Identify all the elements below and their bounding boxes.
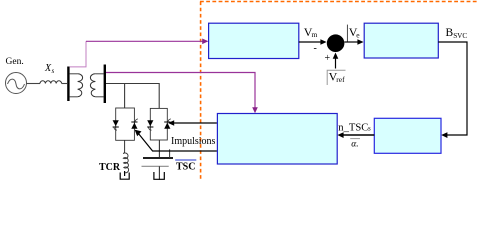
svg-text:ref: ref: [336, 75, 345, 84]
wire U3 to U4 n_TSCs: [341, 134, 374, 136]
bus B1 (primary busbar): [67, 67, 69, 102]
svg-text:-: -: [314, 43, 317, 54]
svg-text:s: s: [52, 67, 55, 75]
TSC capacitor C1: [158, 140, 160, 157]
arrowhead Vref into summer: [333, 53, 339, 59]
arrowhead into U2: [357, 39, 363, 45]
wire summer to U2: [344, 41, 360, 43]
svg-text:n_TSC: n_TSC: [338, 122, 368, 133]
summing junction S1: [327, 34, 345, 52]
alpha label underline: [350, 138, 360, 140]
svg-text:SVC: SVC: [453, 32, 467, 40]
generator G symbol: [6, 73, 27, 94]
transformer T1 secondary lead top: [95, 73, 103, 75]
wire bus B1 to measurement tap (light purple jog): [70, 41, 86, 67]
inductor Xs: [40, 81, 62, 84]
TCR reactor coil: [124, 140, 126, 151]
svg-text:TCR: TCR: [99, 162, 121, 173]
transformer T1 primary lead bottom: [70, 96, 78, 98]
transformer T1 secondary winding: [90, 74, 95, 97]
arrowhead into summer: [320, 39, 326, 45]
arrowhead into U4: [337, 132, 343, 138]
svg-text:s: s: [368, 124, 371, 132]
arrowhead into block U1: [202, 39, 208, 45]
SVC boundary dashed box (left edge): [200, 2, 202, 181]
block U2 regulator: [364, 23, 438, 58]
TCR thyristor valve box: [116, 108, 135, 140]
junction tick near capacitor: [169, 149, 171, 158]
svg-text:α.: α.: [351, 140, 358, 150]
svg-text:+: +: [325, 53, 331, 64]
arrowhead into U3: [441, 132, 447, 138]
block U3: [374, 118, 441, 153]
block U1 measurement: [209, 23, 299, 58]
wire bus B2 to TCR/TSC branches: [106, 84, 159, 109]
wire Vref to summer: [335, 56, 337, 69]
svg-text:Gen.: Gen.: [6, 57, 24, 67]
TCR thyristor pair: [113, 119, 138, 130]
arrowhead into block U4 top: [252, 107, 258, 113]
wire bus B2 to controller (purple): [106, 73, 255, 110]
SVC boundary dashed box (top edge): [200, 1, 477, 3]
wire U1 to summer: [299, 41, 323, 43]
pulse wire to TCR valve: [137, 132, 217, 151]
wire U2 output Bsvc: [438, 42, 467, 135]
Ve label border: [346, 25, 348, 42]
svg-text:Impulsions: Impulsions: [171, 136, 216, 147]
wire generator to Xs: [27, 83, 41, 85]
svg-text:TSC: TSC: [176, 162, 195, 173]
wire drop to TCR valve: [124, 84, 126, 109]
Vref label box: [327, 70, 345, 85]
wire Xs to bus B1: [62, 83, 67, 85]
TSC label overline: [175, 159, 196, 161]
pulse wire to TSC valve: [170, 122, 217, 124]
transformer T1 primary winding: [78, 74, 83, 97]
arrowhead into TSC valve: [168, 120, 174, 126]
transformer T1 primary lead top: [70, 73, 78, 75]
svg-text:m: m: [312, 30, 318, 39]
block U4 distribution unit: [217, 114, 337, 165]
TSC thyristor pair: [147, 119, 171, 130]
bus B2 (secondary busbar): [104, 65, 106, 104]
transformer T1 secondary lead bottom: [95, 96, 103, 98]
TSC thyristor valve box: [150, 108, 167, 140]
wire Vm measurement line to block U1: [86, 40, 205, 42]
arrowhead into TCR valve: [135, 130, 142, 137]
TSC bottom connector: [154, 172, 164, 179]
TCR bottom connector: [120, 171, 129, 179]
